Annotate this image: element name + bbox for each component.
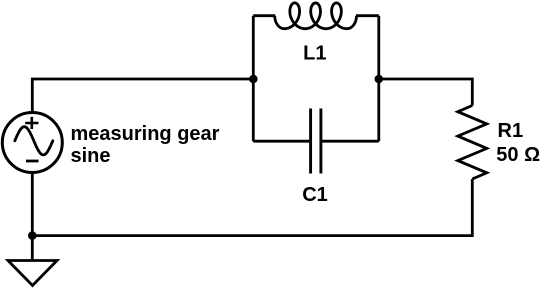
- junction node left tank: [249, 75, 258, 84]
- svg-text:measuring gear: measuring gear: [71, 123, 220, 145]
- ground symbol: [8, 261, 57, 286]
- wire source bottom to ground node: [31, 174, 34, 261]
- junction node ground rail: [28, 231, 37, 240]
- svg-text:C1: C1: [302, 184, 328, 206]
- wire source top to left junction of tank: [32, 79, 253, 112]
- wire resistor bottom to bottom rail: [32, 179, 472, 236]
- wire tank top left stub: [253, 14, 275, 17]
- minus sign: [26, 160, 39, 163]
- svg-text:R1: R1: [498, 120, 524, 142]
- junction node right tank: [375, 75, 384, 84]
- wire tank top right stub: [356, 14, 379, 17]
- capacitor C1 left lead: [253, 140, 309, 143]
- plus sign: [25, 117, 38, 129]
- resistor R1 zigzag: [458, 106, 487, 180]
- capacitor C1 right plate: [319, 109, 322, 174]
- svg-text:sine: sine: [71, 145, 111, 167]
- svg-text:50 Ω: 50 Ω: [496, 144, 540, 166]
- capacitor C1 right lead: [322, 140, 379, 143]
- voltage source V1 circle: [2, 113, 62, 173]
- wire right junction to resistor top: [379, 79, 473, 106]
- wire tank left vertical: [252, 16, 255, 142]
- inductor L1 coil: [275, 3, 357, 29]
- sine wave inside source: [15, 127, 53, 155]
- capacitor C1 left plate: [309, 109, 312, 174]
- svg-text:L1: L1: [303, 43, 326, 65]
- wire tank right vertical: [377, 16, 380, 142]
